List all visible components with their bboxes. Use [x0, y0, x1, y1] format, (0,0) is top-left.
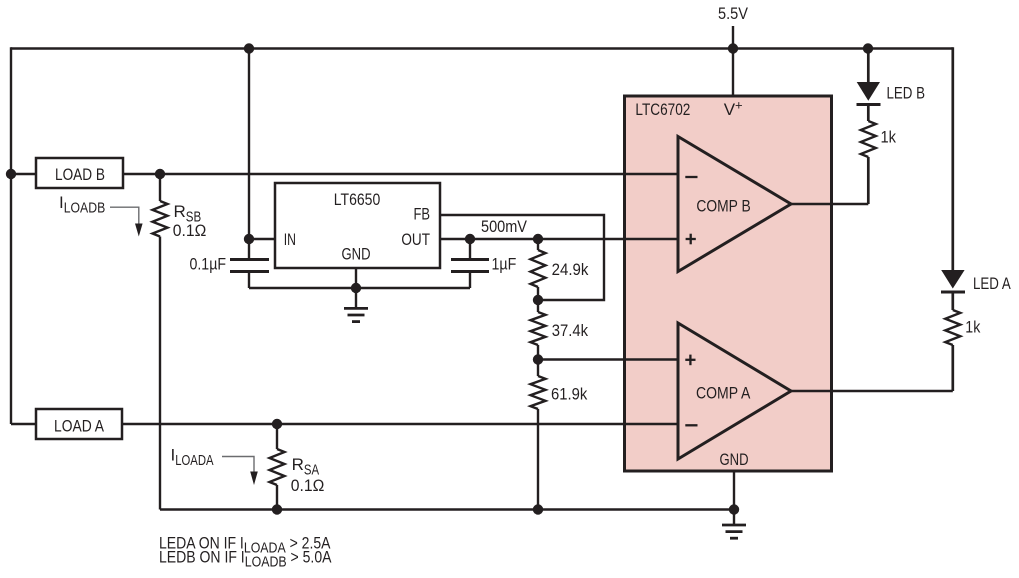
- svg-text:GND: GND: [342, 245, 371, 264]
- wire LED A anode lead (right bus): [951, 47, 954, 270]
- node junction LTC6702 GND / bottom rail: [729, 504, 739, 514]
- svg-text:COMP A: COMP A: [696, 384, 751, 403]
- wire RSA bottom lead: [276, 485, 278, 510]
- IC LTC6702: [625, 96, 832, 471]
- ground symbol under LT6650: [355, 288, 357, 308]
- node junction 24.9k / 37.4k / FB: [533, 295, 543, 305]
- wire LOAD B to COMP B inverting input: [123, 173, 678, 175]
- svg-text:0.1Ω: 0.1Ω: [291, 476, 325, 495]
- pin plus COMP A: [685, 359, 695, 361]
- svg-text:1k: 1k: [881, 128, 897, 147]
- resistor 37.4k: [531, 312, 546, 345]
- wire LED B cathode lead: [867, 105, 870, 122]
- wire RSB top lead: [159, 174, 161, 201]
- node junction LOAD B wire / RSB: [155, 169, 165, 179]
- wire ILOADB arrow: [110, 207, 139, 225]
- wire analog ground run: [249, 287, 470, 289]
- node junction LOAD A wire / RSA: [272, 419, 282, 429]
- svg-text:LED A: LED A: [973, 274, 1011, 293]
- svg-text:1µF: 1µF: [492, 255, 517, 274]
- wire 61.9k leads: [537, 360, 539, 377]
- svg-text:OUT: OUT: [401, 230, 430, 249]
- svg-text:0.1µF: 0.1µF: [190, 255, 227, 274]
- capacitor 0.1uF: [230, 258, 269, 261]
- svg-text:37.4k: 37.4k: [552, 321, 589, 340]
- pin minus COMP A: [685, 424, 697, 426]
- wire left bus to LOAD A: [11, 423, 36, 425]
- block LOAD B: [36, 158, 123, 188]
- svg-text:LTC6702: LTC6702: [635, 100, 690, 119]
- node junction 37.4k / 61.9k tap: [533, 354, 543, 364]
- node junction top rail / IN branch: [244, 43, 254, 53]
- svg-text:FB: FB: [414, 205, 431, 224]
- svg-text:61.9k: 61.9k: [551, 385, 588, 404]
- wire top rail down to IN: [248, 49, 250, 260]
- svg-text:LED B: LED B: [887, 84, 926, 103]
- wire top supply rail: [11, 47, 953, 49]
- svg-text:COMP B: COMP B: [696, 197, 750, 216]
- LED B diode: [857, 103, 881, 106]
- wire OUT 500mV rail to COMP B non-inverting input: [440, 238, 678, 240]
- block LOAD A: [36, 409, 122, 439]
- node 5.5V supply stem: [732, 26, 734, 96]
- capacitor 1uF: [451, 258, 489, 261]
- wire LTC6702 GND pin: [733, 471, 735, 510]
- resistor 24.9k: [531, 250, 546, 287]
- op-amp COMP B: [678, 137, 791, 272]
- node junction OUT / 24.9k: [533, 234, 543, 244]
- node junction 61.9k / bottom rail: [533, 504, 543, 514]
- node junction RSA / bottom rail: [272, 504, 282, 514]
- wire RSB bottom lead to bottom rail: [159, 237, 161, 510]
- resistor RSA 0.1ohm: [270, 449, 285, 485]
- svg-text:LOAD A: LOAD A: [54, 416, 105, 435]
- wire ILOADA arrow: [222, 457, 254, 474]
- ground symbol main: [733, 510, 735, 526]
- svg-text:LOAD B: LOAD B: [55, 165, 105, 184]
- node junction top rail / 5.5V: [728, 43, 738, 53]
- svg-text:5.5V: 5.5V: [718, 4, 749, 23]
- wire COMP B output: [791, 203, 868, 205]
- wire 37.4k leads: [537, 300, 539, 312]
- pin plus COMP B: [686, 238, 696, 240]
- resistor 1k (LED B): [861, 121, 876, 157]
- resistor 1k (LED A): [945, 310, 960, 345]
- op-amp COMP A: [678, 323, 791, 459]
- wire tap to COMP A non-inverting input: [538, 358, 678, 360]
- wire LED A cathode lead: [951, 292, 954, 310]
- node junction OUT / 1uF: [465, 234, 475, 244]
- resistor 61.9k: [531, 376, 546, 409]
- svg-text:1k: 1k: [965, 318, 980, 337]
- pin minus COMP B: [685, 176, 697, 178]
- LED A diode: [941, 291, 965, 294]
- wire left vertical bus: [10, 47, 12, 424]
- wire LED B anode lead: [867, 49, 870, 83]
- IC LT6650: [275, 183, 440, 268]
- wire LT6650 GND stem: [355, 268, 357, 288]
- wire RSA top lead: [276, 424, 278, 449]
- wire bottom ground rail: [160, 508, 734, 510]
- wire 24.9k leads: [537, 239, 539, 250]
- svg-text:500mV: 500mV: [481, 217, 528, 236]
- svg-text:24.9k: 24.9k: [552, 260, 589, 279]
- node junction IN / 0.1uF: [244, 234, 254, 244]
- svg-text:LT6650: LT6650: [334, 190, 381, 209]
- wire COMP A output: [791, 390, 953, 392]
- wire FB feedback loop: [440, 215, 604, 300]
- node junction GND stem / ground run: [351, 283, 361, 293]
- wire LOAD A to COMP A inverting input: [122, 423, 678, 425]
- wire left bus to LOAD B: [11, 173, 36, 175]
- node junction left bus / LOAD B: [6, 169, 16, 179]
- svg-text:0.1Ω: 0.1Ω: [173, 221, 207, 240]
- resistor RSB 0.1ohm: [153, 201, 168, 237]
- svg-text:IN: IN: [284, 230, 296, 249]
- svg-text:GND: GND: [720, 450, 749, 469]
- node junction top rail / LED B branch: [863, 43, 873, 53]
- wire IN pin: [249, 238, 275, 240]
